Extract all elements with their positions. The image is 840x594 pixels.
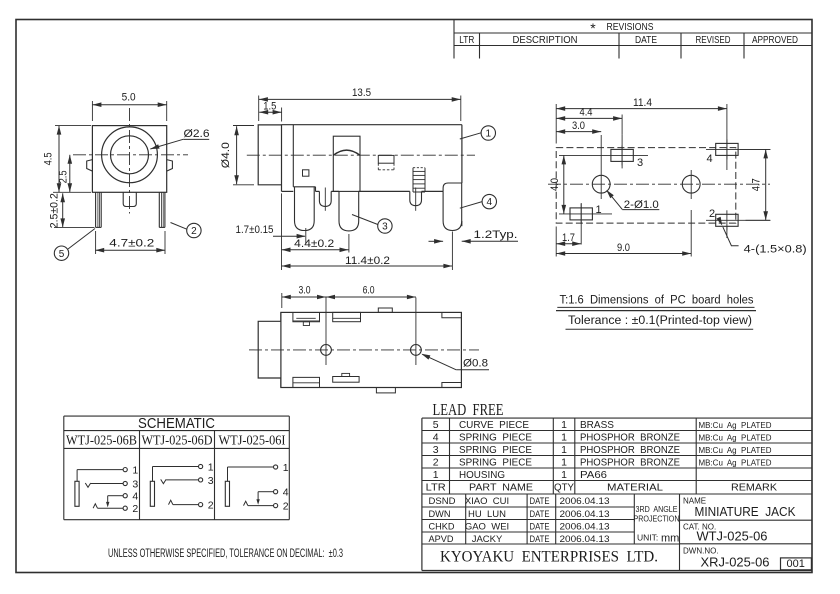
svg-text:KYOYAKU ENTERPRISES LTD.: KYOYAKU ENTERPRISES LTD. (440, 549, 658, 566)
svg-text:WTJ-025-06: WTJ-025-06 (697, 530, 768, 544)
svg-text:4: 4 (487, 197, 493, 208)
svg-text:4.7: 4.7 (751, 178, 763, 191)
svg-text:11.4: 11.4 (633, 97, 652, 109)
svg-text:2: 2 (283, 501, 289, 513)
svg-text:4-(1.5×0.8): 4-(1.5×0.8) (744, 244, 807, 256)
svg-text:DATE: DATE (530, 521, 550, 532)
svg-text:3.0: 3.0 (299, 285, 311, 297)
svg-text:APVD: APVD (429, 534, 454, 545)
svg-text:3RD ANGLE: 3RD ANGLE (636, 505, 678, 514)
svg-text:LTR: LTR (426, 482, 446, 494)
svg-text:3: 3 (382, 222, 388, 233)
svg-text:mm: mm (661, 533, 679, 545)
svg-text:5: 5 (59, 249, 65, 260)
svg-text:3: 3 (433, 444, 439, 456)
svg-text:PHOSPHOR BRONZE: PHOSPHOR BRONZE (580, 444, 680, 456)
svg-text:DWN.NO.: DWN.NO. (683, 547, 719, 556)
svg-text:BRASS: BRASS (580, 419, 614, 431)
svg-text:5.0: 5.0 (122, 91, 136, 103)
svg-text:1: 1 (561, 419, 567, 431)
svg-text:APPROVED: APPROVED (752, 35, 798, 46)
svg-text:4.7±0.2: 4.7±0.2 (109, 238, 154, 250)
svg-text:4.5: 4.5 (43, 152, 55, 165)
svg-text:1: 1 (561, 431, 567, 443)
svg-text:LEAD FREE: LEAD FREE (433, 400, 504, 419)
svg-text:2006.04.13: 2006.04.13 (560, 534, 610, 545)
svg-text:CHKD: CHKD (429, 521, 455, 532)
svg-text:QTY: QTY (554, 482, 574, 494)
svg-text:DATE: DATE (530, 509, 550, 520)
svg-text:4: 4 (132, 491, 138, 503)
svg-text:2: 2 (709, 208, 715, 220)
svg-text:1: 1 (486, 129, 492, 140)
svg-text:XIAO CUI: XIAO CUI (465, 496, 509, 507)
svg-text:PA66: PA66 (580, 469, 607, 481)
svg-text:LTR: LTR (459, 35, 474, 46)
svg-text:PROJECTION: PROJECTION (634, 515, 680, 524)
svg-text:1: 1 (595, 204, 601, 216)
svg-text:1: 1 (561, 444, 567, 456)
svg-text:CURVE PIECE: CURVE PIECE (459, 419, 529, 431)
svg-text:3.0: 3.0 (572, 120, 585, 132)
svg-text:UNIT:: UNIT: (637, 533, 658, 543)
svg-text:DATE: DATE (530, 534, 550, 545)
svg-text:SPRING PIECE: SPRING PIECE (459, 431, 532, 443)
svg-text:T:1.6 Dimensions of PC boa: T:1.6 Dimensions of PC board holes (560, 295, 754, 307)
svg-text:MB:Cu Ag PLATED: MB:Cu Ag PLATED (699, 457, 772, 467)
svg-text:REVISED: REVISED (696, 35, 731, 46)
svg-text:XRJ-025-06: XRJ-025-06 (701, 556, 770, 570)
svg-text:PHOSPHOR BRONZE: PHOSPHOR BRONZE (580, 431, 680, 443)
svg-text:HOUSING: HOUSING (459, 469, 505, 481)
svg-text:MB:Cu Ag PLATED: MB:Cu Ag PLATED (699, 432, 772, 442)
svg-text:2: 2 (433, 456, 439, 468)
svg-text:1: 1 (433, 469, 439, 481)
svg-text:1: 1 (132, 465, 138, 477)
svg-text:4: 4 (706, 153, 712, 165)
svg-text:Ø0.8: Ø0.8 (463, 358, 488, 370)
svg-text:WTJ-025-06D: WTJ-025-06D (142, 432, 213, 447)
svg-text:1.7±0.15: 1.7±0.15 (236, 224, 274, 236)
svg-text:WTJ-025-06I: WTJ-025-06I (219, 432, 286, 447)
svg-text:2: 2 (191, 226, 197, 237)
svg-text:HU LUN: HU LUN (468, 509, 506, 520)
svg-text:4.4±0.2: 4.4±0.2 (294, 238, 334, 250)
svg-text:2: 2 (208, 500, 214, 512)
svg-text:2006.04.13: 2006.04.13 (560, 521, 610, 532)
svg-text:4: 4 (433, 431, 439, 443)
svg-text:2-Ø1.0: 2-Ø1.0 (624, 199, 659, 211)
svg-text:GAO WEI: GAO WEI (465, 521, 509, 532)
svg-text:Ø4.0: Ø4.0 (220, 142, 232, 168)
svg-text:1: 1 (561, 469, 567, 481)
svg-text:*: * (590, 20, 596, 36)
svg-text:4.0: 4.0 (549, 178, 561, 191)
svg-text:6.0: 6.0 (363, 285, 375, 297)
svg-text:WTJ-025-06B: WTJ-025-06B (66, 432, 137, 447)
svg-text:Ø2.6: Ø2.6 (184, 128, 210, 140)
svg-text:3: 3 (208, 475, 214, 487)
svg-text:1: 1 (208, 461, 214, 473)
svg-text:SPRING PIECE: SPRING PIECE (459, 456, 532, 468)
svg-text:Tolerance : ±0.1(Printed-top v: Tolerance : ±0.1(Printed-top view) (568, 315, 752, 327)
svg-text:JACKY: JACKY (472, 534, 503, 545)
svg-text:SCHEMATIC: SCHEMATIC (138, 415, 215, 432)
svg-text:2.5: 2.5 (58, 170, 70, 183)
svg-text:DSND: DSND (429, 496, 456, 507)
svg-text:DATE: DATE (635, 35, 657, 46)
svg-text:UNLESS OTHERWISE SPECIFIED, TO: UNLESS OTHERWISE SPECIFIED, TOLERANCE ON… (108, 548, 343, 560)
svg-text:REVISIONS: REVISIONS (607, 21, 654, 33)
svg-text:11.4±0.2: 11.4±0.2 (345, 255, 390, 267)
svg-text:4: 4 (283, 487, 289, 499)
svg-text:1: 1 (283, 462, 289, 474)
svg-text:REMARK: REMARK (731, 482, 777, 494)
svg-text:2006.04.13: 2006.04.13 (560, 509, 610, 520)
svg-text:MATERIAL: MATERIAL (607, 482, 663, 494)
svg-text:1.5: 1.5 (263, 101, 276, 113)
svg-text:2: 2 (132, 503, 138, 515)
svg-text:001: 001 (787, 558, 805, 570)
svg-text:SPRING PIECE: SPRING PIECE (459, 444, 532, 456)
svg-text:2006.04.13: 2006.04.13 (560, 496, 610, 507)
svg-text:PART NAME: PART NAME (469, 482, 533, 494)
svg-text:2.5±0.2: 2.5±0.2 (48, 193, 60, 228)
svg-text:3: 3 (637, 157, 643, 169)
svg-text:PHOSPHOR BRONZE: PHOSPHOR BRONZE (580, 456, 680, 468)
svg-text:DESCRIPTION: DESCRIPTION (513, 35, 578, 46)
svg-text:4.4: 4.4 (580, 107, 593, 119)
svg-text:DATE: DATE (530, 496, 550, 507)
svg-text:5: 5 (433, 419, 439, 431)
svg-text:13.5: 13.5 (352, 87, 371, 99)
svg-text:9.0: 9.0 (617, 242, 630, 254)
svg-text:MB:Cu Ag PLATED: MB:Cu Ag PLATED (699, 420, 772, 430)
svg-text:3: 3 (132, 478, 138, 490)
svg-text:1.7: 1.7 (562, 232, 575, 244)
svg-text:MB:Cu Ag PLATED: MB:Cu Ag PLATED (699, 445, 772, 455)
svg-text:1: 1 (561, 456, 567, 468)
svg-text:1.2Typ.: 1.2Typ. (474, 229, 518, 241)
svg-text:MINIATURE JACK: MINIATURE JACK (695, 505, 797, 519)
svg-text:DWN: DWN (429, 509, 451, 520)
